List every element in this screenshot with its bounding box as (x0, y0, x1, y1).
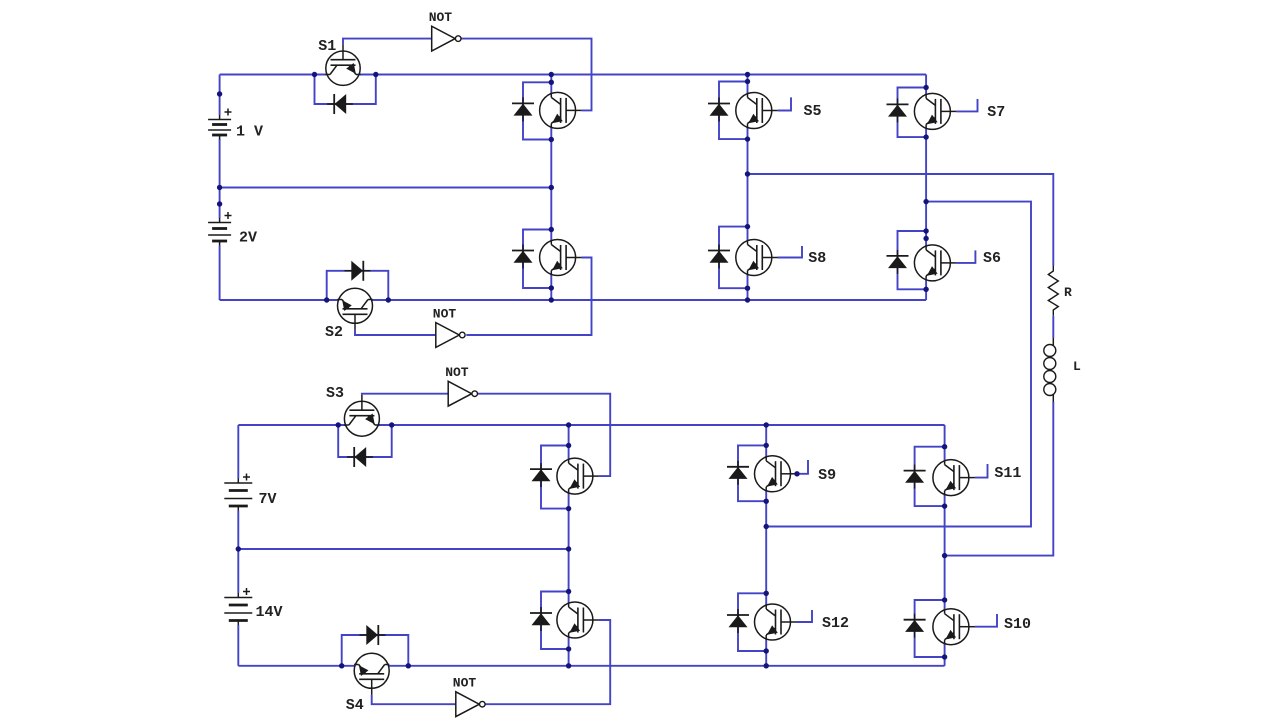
wire leg3 midsection (925, 128, 927, 246)
svg-text:S10: S10 (1004, 616, 1031, 633)
IGBT S9 (755, 456, 791, 492)
wire S5 gate terminal (778, 97, 791, 110)
wire D8 diode loop (719, 227, 748, 289)
wire bleg2 emitter S12 (765, 639, 767, 666)
IGBT S12 (755, 604, 791, 640)
diode D16 (914, 614, 916, 638)
battery V1 1V (219, 115, 221, 120)
diode D10 (897, 250, 899, 274)
wire S2 diode loop (327, 271, 389, 300)
battery V3 7V (237, 479, 239, 484)
node D6 anode (549, 227, 554, 232)
resistor R (1048, 266, 1058, 316)
diode D13 (737, 461, 739, 485)
node leg1 mid (549, 185, 554, 190)
node middle bus left (217, 185, 222, 190)
node D5 cathode (549, 137, 554, 142)
wire S12 gate terminal (797, 610, 813, 622)
svg-text:NOT: NOT (453, 676, 477, 691)
node D14 cathode (764, 648, 769, 653)
wire leg1 collector Q1 (550, 75, 552, 94)
wire leg1 emitter Q2 (550, 274, 552, 300)
wire leg2 midpoint to load R (748, 174, 1054, 266)
not gate U3 (448, 381, 472, 406)
node D9 cathode (923, 134, 928, 139)
wire bottom circuit bottom bus left (238, 665, 354, 667)
node S2 right (386, 297, 391, 302)
svg-text:S3: S3 (326, 385, 344, 402)
svg-text:S4: S4 (346, 697, 364, 714)
diode D2 (345, 270, 371, 272)
svg-text:S8: S8 (808, 250, 826, 267)
wire L to S11 midpoint (945, 402, 1054, 556)
node leg1 bottom bus (549, 297, 554, 302)
wire S2 gate to NOT U2 (355, 330, 436, 335)
wire bleg3 collector S11 (944, 425, 946, 461)
node leg2 mid (745, 171, 750, 176)
node D16 anode (942, 597, 947, 602)
node battery V2 top (217, 201, 222, 206)
wire S9 gate terminal (797, 460, 809, 474)
node leg2 top bus (745, 72, 750, 77)
transistor S3 (344, 395, 379, 437)
IGBT Q2 (540, 240, 576, 276)
node bottom circuit middle bus left (236, 546, 241, 551)
node S4 left (339, 663, 344, 668)
svg-text:1 V: 1 V (236, 124, 263, 141)
wire leg3 emitter S6 (925, 280, 927, 300)
wire S10 gate terminal (975, 614, 997, 627)
svg-text:S12: S12 (822, 615, 849, 632)
IGBT Q3 (557, 458, 593, 494)
node D7 anode (745, 79, 750, 84)
wire D5 diode loop (523, 82, 551, 139)
svg-text:S5: S5 (804, 103, 822, 120)
wire D12 diode loop (541, 592, 569, 650)
diode D15 (914, 465, 916, 489)
svg-text:L: L (1073, 359, 1081, 374)
node S6 collector (923, 236, 928, 241)
node D7 cathode (745, 136, 750, 141)
wire bleg3 emitter S10 (944, 644, 946, 666)
diode D8 (718, 245, 720, 269)
node D10 cathode (923, 287, 928, 292)
node S2 left (324, 297, 329, 302)
wire bleg2 collector S9 (765, 425, 767, 457)
svg-text:14V: 14V (256, 604, 283, 621)
node leg2 bottom bus (745, 297, 750, 302)
wire NOT U1 output to Q1 gate (462, 39, 592, 111)
transistor S2 (337, 288, 372, 330)
node leg1 top bus (549, 72, 554, 77)
node D11 cathode (566, 506, 571, 511)
node D6 cathode (549, 285, 554, 290)
wire D6 diode loop (523, 230, 551, 289)
node S1 right (373, 72, 378, 77)
node bleg1 mid (566, 546, 571, 551)
svg-text:NOT: NOT (445, 365, 469, 380)
wire battery2 column upper (237, 425, 239, 479)
diode D11 (540, 463, 542, 487)
svg-text:S6: S6 (983, 250, 1001, 267)
wire D11 diode loop (541, 446, 569, 509)
node D16 cathode (942, 654, 947, 659)
wire bottom circuit bottom bus right (389, 665, 945, 667)
node S1 left (312, 72, 317, 77)
node leg3 mid (923, 199, 928, 204)
inductor L (1052, 338, 1054, 346)
node D9 anode (923, 85, 928, 90)
wire leg2 emitter S8 (747, 274, 749, 300)
node D12 cathode (566, 646, 571, 651)
node bleg2 bottom bus (764, 663, 769, 668)
wire S3 gate to NOT U3 (362, 394, 448, 395)
svg-text:S9: S9 (818, 467, 836, 484)
node S9 gate (794, 471, 799, 476)
svg-text:NOT: NOT (429, 10, 453, 25)
transistor S1 (325, 44, 360, 85)
wire leg3 midpoint to S9 midpoint (766, 202, 1031, 527)
not gate U2 (436, 323, 460, 348)
wire S7 gate terminal (956, 99, 977, 111)
not gate U4 (456, 692, 480, 717)
wire S1 diode loop (315, 75, 376, 105)
wire S4 diode loop (342, 635, 409, 666)
node D12 anode (566, 589, 571, 594)
diode D4 (360, 634, 386, 636)
IGBT Q1 (540, 92, 576, 128)
wire leg2 midsection (747, 127, 749, 240)
battery V4 14V (237, 593, 239, 598)
battery V2 2V (219, 218, 221, 223)
wire bleg3 midsection (944, 495, 946, 610)
wire NOT U3 output to Q3 gate (478, 394, 611, 476)
wire leg1 midsection (550, 127, 552, 240)
wire D15 diode loop (915, 447, 945, 506)
diode D1 (327, 103, 353, 105)
wire bottom circuit middle bus (238, 548, 568, 550)
wire battery2 column middle (237, 511, 239, 594)
diode D7 (718, 98, 720, 122)
node D8 anode (745, 224, 750, 229)
IGBT S5 (736, 93, 772, 129)
node S3 left (336, 422, 341, 427)
wire bottom circuit top bus left (238, 424, 345, 426)
wire bleg2 midsection (765, 491, 767, 605)
IGBT S8 (736, 240, 772, 276)
wire D9 diode loop (898, 88, 927, 138)
node S3 right (389, 422, 394, 427)
node bleg1 bottom bus (566, 663, 571, 668)
wire NOT U4 output to Q4 gate (484, 620, 610, 704)
diode D6 (522, 245, 524, 269)
svg-text:S7: S7 (987, 104, 1005, 121)
wire top bus right segment (360, 74, 926, 76)
node D13 cathode (764, 499, 769, 504)
IGBT S7 (914, 93, 950, 129)
wire middle bus (220, 187, 552, 189)
node load output B (764, 524, 769, 529)
node D8 cathode (745, 286, 750, 291)
wire bleg1 midsection (568, 493, 570, 603)
node D15 anode (942, 444, 947, 449)
diode D3 (347, 456, 373, 458)
node bleg2 top bus (764, 422, 769, 427)
IGBT S11 (933, 460, 969, 496)
wire bleg1 collector Q3 (568, 425, 570, 459)
wire D13 diode loop (738, 445, 766, 501)
IGBT S10 (933, 609, 969, 645)
svg-text:NOT: NOT (433, 307, 457, 322)
node D11 anode (566, 443, 571, 448)
transistor S4 (354, 653, 389, 695)
wire NOT U2 output to Q2 gate (466, 258, 591, 336)
node D13 anode (764, 443, 769, 448)
IGBT Q4 (557, 602, 593, 638)
diode D14 (737, 609, 739, 633)
node load output A (942, 553, 947, 558)
svg-text:S2: S2 (325, 324, 343, 341)
wire battery column upper (219, 75, 221, 116)
wire battery column lower (219, 246, 221, 301)
node D15 cathode (942, 503, 947, 508)
wire S4 gate to NOT U4 (372, 695, 456, 704)
wire S8 gate terminal (778, 246, 802, 258)
wire bottom bus right segment (372, 299, 926, 301)
node bleg1 top bus (566, 422, 571, 427)
node S4 right (406, 663, 411, 668)
wire bleg1 emitter Q4 (568, 637, 570, 666)
svg-text:R: R (1064, 285, 1072, 300)
IGBT S6 (914, 245, 950, 281)
wire D7 diode loop (719, 82, 748, 140)
wire S1 gate to NOT U1 (343, 39, 432, 45)
wire S6 gate terminal (956, 250, 975, 263)
svg-text:S11: S11 (994, 465, 1021, 482)
svg-text:7V: 7V (259, 491, 277, 508)
diode D5 (522, 97, 524, 121)
svg-text:S1: S1 (318, 38, 336, 55)
wire R to L (1052, 316, 1054, 338)
wire S3 diode loop (338, 425, 392, 457)
wire bottom circuit top bus right (379, 424, 945, 426)
wire D16 diode loop (915, 600, 945, 657)
svg-text:2V: 2V (239, 230, 257, 247)
wire D14 diode loop (738, 593, 766, 651)
diode D12 (540, 607, 542, 631)
wire D10 diode loop (898, 231, 927, 289)
wire battery column middle (219, 139, 221, 218)
wire leg2 collector S5 (747, 75, 749, 94)
wire battery2 column lower (237, 625, 239, 666)
diode D9 (897, 98, 899, 122)
wire bottom bus left segment (220, 299, 339, 301)
not gate U1 (432, 26, 456, 51)
wire S11 gate terminal (975, 464, 988, 478)
node D14 anode (764, 591, 769, 596)
wire top bus left segment (220, 74, 327, 76)
wire leg3 collector S7 (925, 75, 927, 95)
node D10 anode (923, 228, 928, 233)
node D5 anode (549, 80, 554, 85)
node battery column top (217, 91, 222, 96)
